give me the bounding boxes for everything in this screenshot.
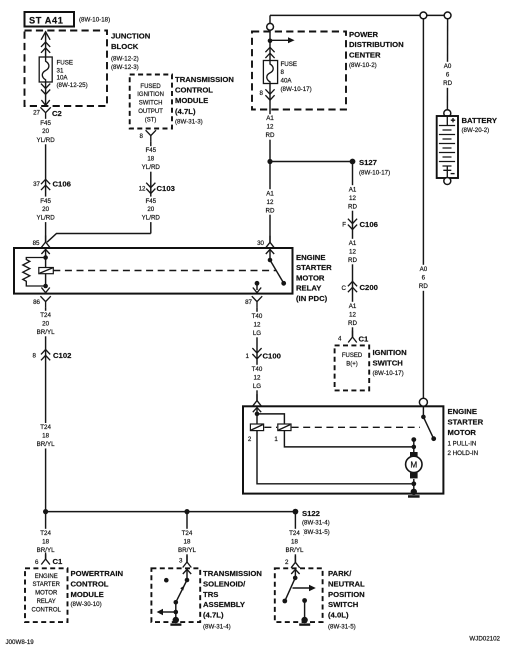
svg-text:TRANSMISSION: TRANSMISSION xyxy=(203,569,262,578)
svg-text:(4.7L): (4.7L) xyxy=(203,611,224,620)
ignition switch title xyxy=(373,348,408,377)
connector C103 xyxy=(146,183,155,194)
svg-text:1: 1 xyxy=(246,353,250,360)
svg-text:A1: A1 xyxy=(266,190,274,197)
svg-text:T24: T24 xyxy=(40,312,51,319)
svg-text:C106: C106 xyxy=(360,220,378,229)
connector C106 (cavity F) xyxy=(348,219,357,230)
svg-text:BR/YL: BR/YL xyxy=(286,547,304,554)
svg-text:3: 3 xyxy=(179,558,183,565)
svg-text:YL/RD: YL/RD xyxy=(142,215,161,222)
svg-text:RD: RD xyxy=(443,80,452,87)
svg-text:C102: C102 xyxy=(53,351,71,360)
wire TRS branch, T24 18 BR/YL xyxy=(186,512,188,562)
connector C1 (ignition switch) xyxy=(348,331,357,343)
svg-text:T40: T40 xyxy=(252,366,263,373)
wire C102 to splice, T24 18 BR/YL xyxy=(33,423,59,449)
svg-text:F: F xyxy=(342,222,346,229)
splice S127 xyxy=(350,158,391,176)
terminal entry arrow pin 85 inside xyxy=(41,249,49,254)
connector C102 xyxy=(41,350,50,361)
svg-text:18: 18 xyxy=(147,156,154,163)
svg-text:12: 12 xyxy=(254,374,261,381)
svg-text:FUSE: FUSE xyxy=(281,61,298,68)
svg-text:MOTOR: MOTOR xyxy=(448,428,477,437)
svg-text:A0: A0 xyxy=(420,266,428,273)
node TRS arm lower xyxy=(174,600,179,605)
svg-text:12: 12 xyxy=(267,124,274,131)
svg-text:SWITCH: SWITCH xyxy=(328,600,359,609)
connector C1 (PCM) xyxy=(41,553,50,565)
PNP title xyxy=(328,569,365,630)
svg-text:J00W8-19: J00W8-19 xyxy=(6,639,35,646)
svg-text:RD: RD xyxy=(348,320,357,327)
svg-text:F45: F45 xyxy=(145,147,156,154)
terminal exit arrow pin 86 xyxy=(41,288,49,293)
dashed solenoid linkage xyxy=(264,426,420,428)
svg-text:(8W-12-3): (8W-12-3) xyxy=(111,64,139,71)
svg-text:C106: C106 xyxy=(53,180,71,189)
connector C200 xyxy=(348,281,357,292)
node starter switch pivot xyxy=(421,415,426,420)
coil 2 hold-in xyxy=(250,424,263,431)
svg-text:(8W-10-17): (8W-10-17) xyxy=(281,86,312,93)
svg-text:6: 6 xyxy=(446,71,450,78)
wire splice to coil 1 xyxy=(257,414,284,424)
svg-text:20: 20 xyxy=(42,320,49,327)
svg-text:(8W-31-3): (8W-31-3) xyxy=(175,118,203,125)
battery title xyxy=(462,116,497,134)
connector fork pin 86 xyxy=(40,296,50,307)
svg-text:OUTPUT: OUTPUT xyxy=(138,109,163,115)
svg-text:SOLENOID/: SOLENOID/ xyxy=(203,579,246,588)
TCM title xyxy=(175,75,234,125)
junction block dashed box xyxy=(25,31,108,107)
wire PDC to S127, A1 12 RD xyxy=(269,113,271,162)
node top bus terminal A xyxy=(420,12,427,19)
svg-text:A1: A1 xyxy=(349,186,357,193)
motor M xyxy=(406,452,422,478)
svg-text:RELAY: RELAY xyxy=(296,284,321,293)
svg-text:YL/RD: YL/RD xyxy=(142,164,161,171)
relay switch common from pin 30 xyxy=(269,250,271,260)
wire TCM to C103, F45 18 YL/RD xyxy=(150,141,152,233)
svg-text:86: 86 xyxy=(33,299,40,306)
node switch arm tip xyxy=(281,281,286,286)
wire C106 to relay pin 85, F45 20 YL/RD xyxy=(33,197,59,223)
node arm tip xyxy=(431,436,436,441)
svg-text:B(+): B(+) xyxy=(346,362,358,368)
connector fork pin 2 xyxy=(291,556,300,568)
fused B(+) label xyxy=(342,353,363,368)
svg-text:(8W-31-4): (8W-31-4) xyxy=(302,520,330,527)
node TRS park contact xyxy=(164,578,169,583)
node splice left on S122 bus xyxy=(43,509,48,514)
wire PNP branch, T24 18 BR/YL xyxy=(294,512,296,563)
svg-text:MOTOR: MOTOR xyxy=(296,273,325,282)
svg-text:STARTER: STARTER xyxy=(32,582,60,588)
wire TRS entry xyxy=(186,570,188,580)
wire motor to ground xyxy=(413,479,415,491)
wire fuse to PDC bottom xyxy=(269,84,271,114)
svg-text:12: 12 xyxy=(254,321,261,328)
resistor winding xyxy=(23,258,46,287)
starter motor box xyxy=(243,406,443,493)
ignition switch dashed box xyxy=(335,345,370,390)
svg-text:20: 20 xyxy=(147,206,154,213)
svg-text:T40: T40 xyxy=(252,313,263,320)
svg-text:30: 30 xyxy=(257,240,264,247)
label box ST A41 xyxy=(25,12,75,27)
svg-text:2: 2 xyxy=(285,559,289,566)
svg-text:YL/RD: YL/RD xyxy=(36,215,55,222)
svg-text:A1: A1 xyxy=(349,303,357,310)
svg-text:IGNITION: IGNITION xyxy=(137,92,164,98)
svg-text:12: 12 xyxy=(349,311,356,318)
svg-text:12: 12 xyxy=(139,186,146,193)
svg-text:M: M xyxy=(410,461,417,470)
svg-text:C1: C1 xyxy=(53,557,64,566)
node switch pivot xyxy=(268,258,273,263)
svg-text:(IN PDC): (IN PDC) xyxy=(296,294,328,303)
node TRS output junction xyxy=(174,610,179,615)
node ground junction xyxy=(411,481,416,486)
svg-text:6: 6 xyxy=(422,274,426,281)
svg-text:IGNITION: IGNITION xyxy=(373,348,408,357)
svg-text:C2: C2 xyxy=(52,109,62,118)
svg-text:RD: RD xyxy=(266,132,275,139)
battery stud terminal xyxy=(419,398,427,406)
wire contact to motor xyxy=(413,440,415,452)
PNP dashed box xyxy=(275,568,323,622)
svg-text:12: 12 xyxy=(349,248,356,255)
svg-text:2: 2 xyxy=(248,436,252,443)
node splice at S127 branch xyxy=(267,159,272,164)
svg-text:RD: RD xyxy=(348,203,357,210)
junction block title xyxy=(111,32,151,71)
svg-text:BATTERY: BATTERY xyxy=(462,116,497,125)
connector chevrons below fuse 8 xyxy=(265,89,274,100)
fuse 8 40A xyxy=(263,61,277,84)
svg-text:ENGINE: ENGINE xyxy=(35,574,58,580)
node PNP ground contact xyxy=(302,598,307,603)
connector fork pin 85 xyxy=(41,236,50,248)
svg-text:ST A41: ST A41 xyxy=(29,15,63,25)
wire S127 down to relay pin 30, A1 12 RD xyxy=(269,162,271,243)
svg-text:MOTOR: MOTOR xyxy=(35,591,58,597)
svg-text:CONTROL: CONTROL xyxy=(32,607,62,613)
svg-text:C1: C1 xyxy=(359,335,370,344)
svg-text:C: C xyxy=(342,285,347,292)
TRS switch arm xyxy=(176,580,187,602)
svg-text:POWER: POWER xyxy=(349,30,378,39)
svg-text:(4.7L): (4.7L) xyxy=(175,107,196,116)
PNP actuate arrow xyxy=(293,585,316,591)
dashed actuator linkage xyxy=(53,270,276,272)
svg-text:8: 8 xyxy=(33,353,37,360)
coil actuator box xyxy=(39,268,54,274)
svg-text:A1: A1 xyxy=(266,115,274,122)
svg-text:SWITCH: SWITCH xyxy=(139,101,163,107)
node splice TRS branch xyxy=(184,509,189,514)
svg-text:FUSED: FUSED xyxy=(140,84,161,90)
PCM dashed box xyxy=(25,568,68,622)
svg-text:(8W-31-5): (8W-31-5) xyxy=(328,623,356,630)
svg-text:ASSEMBLY: ASSEMBLY xyxy=(203,600,245,609)
terminal entry arrow at junction block top xyxy=(41,32,50,40)
connector C100 xyxy=(252,348,261,359)
svg-text:CONTROL: CONTROL xyxy=(71,579,109,588)
wire stud to switch pivot xyxy=(422,406,424,417)
starter title xyxy=(448,407,484,457)
node coil top xyxy=(43,255,48,260)
svg-text:T24: T24 xyxy=(289,530,300,537)
svg-text:T24: T24 xyxy=(40,424,51,431)
svg-text:DISTRIBUTION: DISTRIBUTION xyxy=(349,40,404,49)
connector C106 (cavity 37) xyxy=(41,179,50,190)
svg-text:(8W-30-10): (8W-30-10) xyxy=(71,601,102,608)
coil 1 pull-in xyxy=(278,424,291,431)
wire coil 1 to motor node xyxy=(284,431,413,447)
svg-text:RELAY: RELAY xyxy=(37,599,56,605)
svg-text:1: 1 xyxy=(274,436,278,443)
svg-text:37: 37 xyxy=(33,181,40,188)
node battery feed splice (left circle) xyxy=(267,15,274,30)
svg-text:POWERTRAIN: POWERTRAIN xyxy=(71,569,124,578)
svg-text:A1: A1 xyxy=(349,240,357,247)
PDC title xyxy=(349,30,404,69)
svg-text:(4.0L): (4.0L) xyxy=(328,611,349,620)
svg-text:(8W-12-25): (8W-12-25) xyxy=(57,82,88,89)
relay title xyxy=(296,253,332,303)
wire 87 to C100, T40 12 LG xyxy=(256,307,258,400)
wire fuse to C2 xyxy=(45,82,47,105)
node top bus terminal B xyxy=(444,12,451,19)
TCM dashed box xyxy=(130,75,172,129)
wire C106 to C200, A1 12 RD xyxy=(341,239,364,264)
svg-text:(8W-31-5): (8W-31-5) xyxy=(302,529,330,536)
svg-text:F45: F45 xyxy=(40,120,51,127)
TRS title xyxy=(203,569,262,630)
svg-text:31: 31 xyxy=(57,67,64,74)
svg-text:CENTER: CENTER xyxy=(349,51,381,60)
wire arrow to other circuits xyxy=(270,37,295,43)
connector fork pin 87 xyxy=(252,296,262,307)
svg-text:BR/YL: BR/YL xyxy=(178,547,196,554)
wire C2 to C106, F45 20 YL/RD xyxy=(45,119,47,243)
battery negative terminal xyxy=(444,178,451,185)
fuse 31 10A xyxy=(39,57,52,82)
node solenoid splice xyxy=(255,412,260,417)
svg-text:FUSED: FUSED xyxy=(342,353,363,359)
node coil bottom xyxy=(43,284,48,289)
svg-text:ENGINE: ENGINE xyxy=(448,407,477,416)
svg-text:CONTROL: CONTROL xyxy=(175,86,213,95)
svg-text:85: 85 xyxy=(33,240,40,247)
wire PNP contact to ground xyxy=(304,601,306,620)
wire TRS to ground xyxy=(175,602,177,619)
svg-text:8: 8 xyxy=(281,69,285,76)
svg-text:WJD02102: WJD02102 xyxy=(469,636,500,643)
wire splice to C1, T24 18 BR/YL xyxy=(45,512,47,559)
terminal entry arrow PNP xyxy=(291,569,299,574)
wire ST A41 feed inside junction block xyxy=(45,32,47,58)
wire C100 to starter, T40 12 LG xyxy=(245,365,269,391)
TCM output label xyxy=(137,84,164,124)
wire top bus xyxy=(270,14,444,16)
svg-text:(8W-10-17): (8W-10-17) xyxy=(359,170,390,177)
svg-text:A0: A0 xyxy=(444,63,452,70)
svg-text:C103: C103 xyxy=(157,184,175,193)
relay coil wire xyxy=(45,250,47,288)
svg-text:FUSE: FUSE xyxy=(57,60,74,67)
svg-text:F45: F45 xyxy=(40,198,51,205)
node splice in PDC xyxy=(268,39,273,44)
wire coil 2 to ground bus xyxy=(257,431,414,484)
fuse 31 value label xyxy=(57,60,88,90)
svg-text:LG: LG xyxy=(253,383,261,390)
svg-text:1 PULL-IN: 1 PULL-IN xyxy=(448,441,477,448)
wire PNP entry xyxy=(294,570,296,578)
starter switch arm xyxy=(423,417,433,437)
wire circle into PDC xyxy=(269,30,271,60)
svg-text:BR/YL: BR/YL xyxy=(37,441,55,448)
wire C200 to C1, A1 12 RD xyxy=(341,302,364,328)
svg-text:S127: S127 xyxy=(359,158,377,167)
wire S122 bus xyxy=(46,511,296,513)
ground TRS xyxy=(170,617,181,626)
connector fork solenoid control xyxy=(253,394,262,406)
wire bus terminal A down to starter, A0 6 RD xyxy=(422,19,424,398)
node junction coil1 wire xyxy=(412,445,417,450)
connector chevrons above fuse 8 xyxy=(265,47,274,58)
svg-text:27: 27 xyxy=(33,110,40,117)
PNP switch arm xyxy=(285,578,295,601)
battery positive terminal xyxy=(444,110,451,117)
svg-text:MODULE: MODULE xyxy=(175,96,208,105)
node pin 87 contact xyxy=(255,281,260,286)
svg-text:(8W-20-2): (8W-20-2) xyxy=(462,127,490,134)
switch arm xyxy=(270,260,283,282)
PCM title xyxy=(71,569,124,608)
svg-text:2 HOLD-IN: 2 HOLD-IN xyxy=(448,450,479,457)
svg-text:PARK/: PARK/ xyxy=(328,569,352,578)
svg-text:8: 8 xyxy=(140,133,144,140)
svg-text:87: 87 xyxy=(245,299,252,306)
svg-text:BR/YL: BR/YL xyxy=(37,329,55,336)
svg-text:(8W-10-18): (8W-10-18) xyxy=(79,16,110,23)
svg-text:TRS: TRS xyxy=(203,590,218,599)
wire C103 to relay pin 85 merge, F45 20 YL/RD xyxy=(47,234,151,243)
wire 86 to C102, T24 20 BR/YL xyxy=(45,307,47,511)
svg-text:T24: T24 xyxy=(40,530,51,537)
wire TRS output arrow xyxy=(157,609,176,615)
splice S122 xyxy=(293,509,330,536)
svg-text:20: 20 xyxy=(42,206,49,213)
connector fork pin 30 xyxy=(266,236,275,248)
node PNP arm tip xyxy=(282,599,287,604)
connector chevrons below fuse xyxy=(41,84,50,95)
svg-text:LG: LG xyxy=(253,330,261,337)
svg-text:4: 4 xyxy=(338,335,342,342)
svg-text:12: 12 xyxy=(267,199,274,206)
svg-text:T24: T24 xyxy=(182,530,193,537)
terminal entry arrow TRS xyxy=(183,569,191,574)
PDC dashed box xyxy=(252,32,346,110)
ground starter motor xyxy=(408,489,420,498)
wire to S127 xyxy=(270,161,353,163)
svg-text:18: 18 xyxy=(184,538,191,545)
svg-text:6: 6 xyxy=(35,559,39,566)
svg-text:18: 18 xyxy=(42,433,49,440)
svg-text:(ST): (ST) xyxy=(145,117,157,123)
svg-text:STARTER: STARTER xyxy=(448,417,484,426)
relay box xyxy=(14,248,293,294)
svg-text:8: 8 xyxy=(260,90,264,97)
node PNP input xyxy=(293,576,298,581)
battery body xyxy=(437,116,458,178)
terminal entry arrow pin 30 inside xyxy=(266,249,274,254)
svg-text:C200: C200 xyxy=(360,283,378,292)
terminal exit arrow pin 87 xyxy=(253,288,261,293)
fuse 8 value label xyxy=(281,61,312,93)
svg-text:12: 12 xyxy=(349,195,356,202)
svg-text:C100: C100 xyxy=(263,351,281,360)
wire control in xyxy=(256,408,258,424)
svg-text:RD: RD xyxy=(266,207,275,214)
connector fork pin 3 xyxy=(183,556,192,568)
svg-text:YL/RD: YL/RD xyxy=(36,137,55,144)
svg-text:10A: 10A xyxy=(57,74,69,81)
svg-text:ENGINE: ENGINE xyxy=(296,253,325,262)
svg-text:S122: S122 xyxy=(302,509,320,518)
svg-text:18: 18 xyxy=(291,538,298,545)
svg-text:F45: F45 xyxy=(145,198,156,205)
svg-text:BLOCK: BLOCK xyxy=(111,42,139,51)
wire contact to pin 87 xyxy=(256,283,258,290)
ground PNP xyxy=(299,617,310,626)
terminal exit arrow at junction block bottom xyxy=(41,100,49,105)
svg-text:(8W-10-2): (8W-10-2) xyxy=(349,62,377,69)
svg-text:JUNCTION: JUNCTION xyxy=(111,32,151,41)
svg-text:MODULE: MODULE xyxy=(71,590,104,599)
connector chevrons below entry xyxy=(41,42,50,53)
svg-text:RD: RD xyxy=(419,283,428,290)
node motor contact xyxy=(411,437,416,442)
svg-text:RD: RD xyxy=(348,257,357,264)
svg-text:TRANSMISSION: TRANSMISSION xyxy=(175,75,234,84)
wire S127 to C106, A1 12 RD xyxy=(352,162,354,338)
svg-text:18: 18 xyxy=(42,538,49,545)
connector C2 xyxy=(40,107,50,118)
svg-text:STARTER: STARTER xyxy=(296,263,332,272)
TRS dashed box xyxy=(151,568,200,622)
node TRS input xyxy=(185,578,190,583)
svg-text:20: 20 xyxy=(42,128,49,135)
svg-text:NEUTRAL: NEUTRAL xyxy=(328,579,365,588)
svg-text:(8W-31-4): (8W-31-4) xyxy=(203,623,231,630)
connector at TCM pin 8 xyxy=(146,130,156,141)
svg-text:SWITCH: SWITCH xyxy=(373,359,404,368)
wire bus to battery, A0 6 RD xyxy=(446,19,448,110)
PCM input label xyxy=(32,574,62,614)
svg-text:(8W-10-17): (8W-10-17) xyxy=(373,370,404,377)
svg-text:40A: 40A xyxy=(281,77,293,84)
svg-text:(8W-12-2): (8W-12-2) xyxy=(111,55,139,62)
terminal entry arrow solenoid control xyxy=(253,408,261,413)
svg-text:POSITION: POSITION xyxy=(328,590,365,599)
